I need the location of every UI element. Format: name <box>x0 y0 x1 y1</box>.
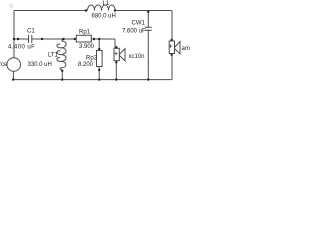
node dot middle branch tee <box>13 38 15 40</box>
capacitor CW1 <box>145 27 152 30</box>
inductor LT1 <box>57 39 66 71</box>
svg-text:8.200: 8.200 <box>78 62 94 68</box>
node dot Rp2 tee <box>98 38 100 40</box>
resistor Rp2 <box>97 51 103 67</box>
node dot L1 left <box>85 9 87 11</box>
node dot C1 left <box>17 38 19 40</box>
node dot Rp1 left <box>74 38 76 40</box>
wire CW1 bottom stem <box>147 30 149 79</box>
wire Rp2 top stem <box>98 39 100 51</box>
wire Rp1 right <box>91 38 115 40</box>
node dot xc10n bottom <box>115 61 117 63</box>
node dot CW1 rail <box>147 78 149 80</box>
wire middle branch C1 to Rp1 <box>32 38 76 40</box>
node dot CW1 top <box>147 11 149 13</box>
svg-text:am: am <box>182 46 190 52</box>
node dot xc10n rail <box>115 78 117 80</box>
node dot source rail corner <box>12 78 14 80</box>
wire bottom rail <box>13 79 172 81</box>
wire xc10n bottom stem <box>115 61 117 80</box>
svg-text:Source: Source <box>0 62 8 68</box>
speaker xc10n <box>114 48 125 61</box>
node dot xc10n top <box>115 46 117 48</box>
faint artifact top-left <box>10 5 14 8</box>
node dot am bottom <box>171 54 173 56</box>
svg-text:Rp2: Rp2 <box>86 55 98 61</box>
wire top rail left <box>14 10 86 12</box>
svg-text:LT1: LT1 <box>48 53 59 59</box>
node dot Rp1 right <box>93 38 95 40</box>
svg-text:CW1: CW1 <box>132 21 146 27</box>
svg-text:Rp1: Rp1 <box>79 29 91 35</box>
inductor L1 <box>88 5 116 10</box>
node dot am top <box>171 39 173 41</box>
node dot LT1 bottom <box>61 70 63 72</box>
svg-text:3.900: 3.900 <box>79 44 95 50</box>
node dot LT1 rail <box>61 78 63 80</box>
capacitor C1 <box>29 35 32 43</box>
wire middle branch left <box>14 38 29 40</box>
svg-text:L1: L1 <box>103 1 110 7</box>
node dot Rp2 bottom <box>98 69 100 71</box>
wire left border upper <box>13 11 15 58</box>
node dot LT1 tee <box>62 38 64 40</box>
svg-text:4.400 uF: 4.400 uF <box>8 44 35 50</box>
svg-text:7.600 uF: 7.600 uF <box>122 29 146 35</box>
resistor Rp1 <box>76 35 91 42</box>
svg-text:C1: C1 <box>27 28 35 34</box>
wire CW1 top stem <box>147 11 149 28</box>
wire right border upper <box>171 11 173 41</box>
svg-text:330.0 uH: 330.0 uH <box>28 62 52 68</box>
wire left border lower <box>12 71 14 79</box>
source circle <box>7 58 21 72</box>
wire right border lower <box>171 55 173 80</box>
node dot C1 right <box>41 38 43 40</box>
node dot L1 right <box>114 9 116 11</box>
node dot Rp2 top <box>98 48 100 50</box>
svg-text:680.0 uH: 680.0 uH <box>92 14 116 20</box>
speaker am <box>169 41 180 54</box>
node dot Rp2 rail <box>98 78 100 80</box>
wire Rp2 bottom stem <box>98 67 100 80</box>
svg-text:xc10n: xc10n <box>129 54 145 60</box>
wire LT1 bottom stem <box>61 71 63 80</box>
wire top rail right <box>114 10 172 12</box>
wire branch down to speaker xc10n <box>115 39 116 47</box>
